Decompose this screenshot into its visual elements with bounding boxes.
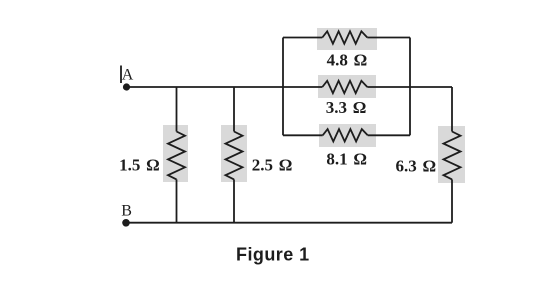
wire top branch right xyxy=(367,37,410,39)
wire top branch left xyxy=(283,37,322,39)
svg-text:2.5 Ω: 2.5 Ω xyxy=(252,156,293,175)
wire right vertical bottom xyxy=(451,179,453,222)
wire bottom branch right xyxy=(368,134,410,136)
resistor R5 6.3 zigzag xyxy=(444,132,461,180)
wire box right edge xyxy=(409,38,411,136)
wire box right to corner xyxy=(410,86,452,88)
highlight 4.8 ohm xyxy=(317,28,377,50)
wire 2.5 top lead xyxy=(233,87,235,132)
wire 1.5 bottom lead xyxy=(176,179,178,222)
wire A to box left xyxy=(127,86,284,88)
wire box left edge xyxy=(282,38,284,136)
resistor R3 3.3 zigzag xyxy=(322,81,367,93)
highlight 8.1 ohm xyxy=(319,124,376,147)
resistor R1 1.5 zigzag xyxy=(168,132,185,180)
svg-text:A: A xyxy=(122,66,134,83)
node A terminal dot xyxy=(123,83,130,90)
highlight 3.3 ohm xyxy=(318,75,376,98)
wire bottom B to corner xyxy=(126,222,452,224)
resistor R6 2.5 zigzag xyxy=(226,132,243,180)
svg-text:B: B xyxy=(121,203,132,220)
highlight 2.5 ohm xyxy=(221,125,247,182)
highlight 6.3 ohm xyxy=(438,126,465,183)
tick at node A xyxy=(120,66,122,84)
wire 2.5 bottom lead xyxy=(233,179,235,222)
svg-text:Figure 1: Figure 1 xyxy=(236,244,310,264)
resistor R4 8.1 zigzag xyxy=(323,129,368,141)
resistor R2 4.8 zigzag xyxy=(322,31,367,43)
node B terminal dot xyxy=(122,219,130,227)
svg-text:4.8 Ω: 4.8 Ω xyxy=(327,50,368,69)
wire right vertical top xyxy=(451,87,453,132)
wire mid branch right xyxy=(367,86,410,88)
wire mid branch left xyxy=(283,86,322,88)
highlight 1.5 ohm xyxy=(163,125,188,182)
wire bottom branch left xyxy=(283,134,323,136)
svg-text:3.3 Ω: 3.3 Ω xyxy=(326,98,367,117)
wire 1.5 top lead xyxy=(176,87,178,132)
svg-text:1.5 Ω: 1.5 Ω xyxy=(119,156,160,175)
svg-text:8.1 Ω: 8.1 Ω xyxy=(326,149,367,168)
svg-text:6.3 Ω: 6.3 Ω xyxy=(396,157,437,176)
